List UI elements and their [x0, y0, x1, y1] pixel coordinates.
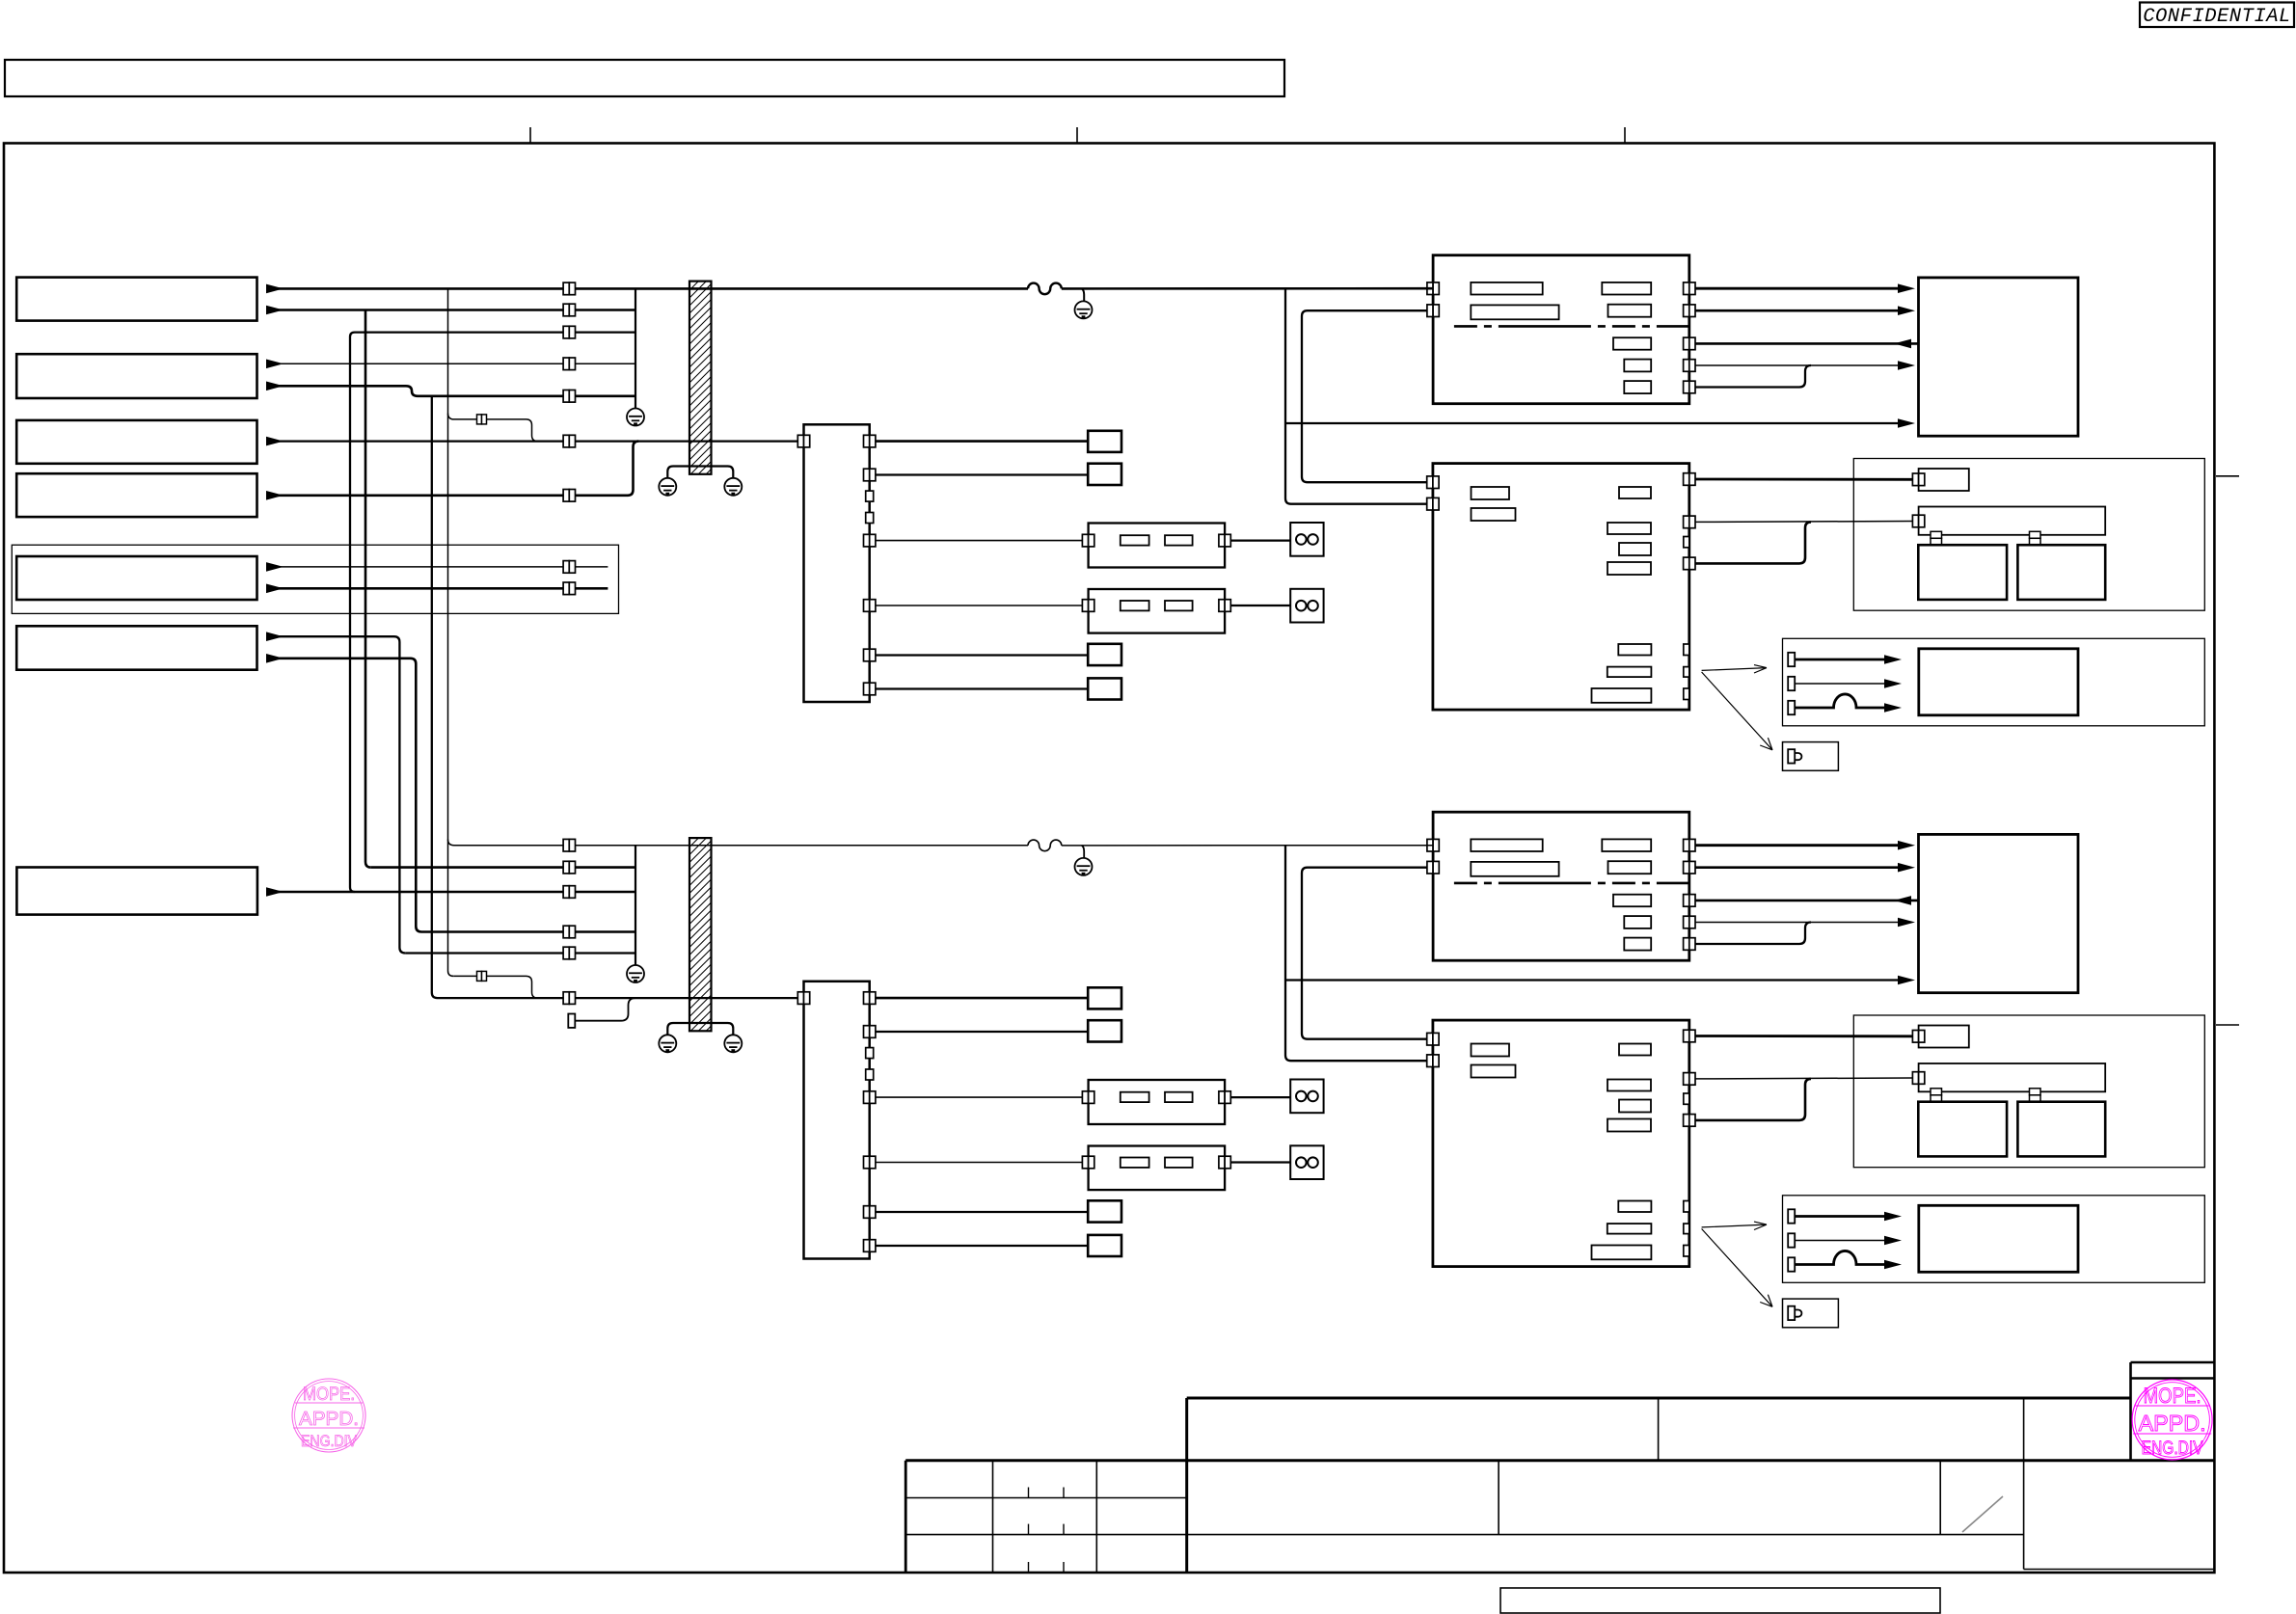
wire b3 from box7: [266, 891, 635, 894]
wire w6 to strip: [266, 440, 798, 442]
wire U2 thin to group long rect: [1695, 521, 1912, 524]
filter module 2: [1089, 589, 1226, 633]
interconnect vertical B, U1 L2 to U2 L1: [1302, 310, 1427, 482]
wire box5 b: [266, 587, 608, 590]
wire box6 b down v431: [266, 659, 421, 932]
bus vertical v448: [432, 396, 438, 998]
wire U1 to panel 3 (reverse arrow): [1695, 342, 1919, 345]
stamp box right: [2131, 1361, 2215, 1364]
bottom small box under frame: [1500, 1588, 1940, 1613]
wire b5: [405, 952, 635, 954]
long rail wire to panel: [1286, 422, 1905, 424]
bus vertical v379: [365, 310, 371, 868]
twisted-wire symbol bottom: [1028, 840, 1062, 851]
wire w5 with jog: [266, 386, 635, 396]
speaker box R: [2017, 545, 2105, 600]
ground left: [659, 478, 676, 496]
upper header row: [1187, 1397, 2131, 1400]
connectors top rows: [563, 282, 575, 295]
stub connectors: [1931, 531, 2040, 545]
wire w4 thin: [266, 363, 635, 364]
main table: [905, 1459, 2214, 1462]
input box 1: [16, 278, 257, 321]
wire U1 to panel 4 thin: [1695, 364, 1905, 366]
svg-text:CONFIDENTIAL: CONFIDENTIAL: [2143, 6, 2291, 28]
group3 wire 2 thin: [1795, 683, 1890, 685]
group3 inner box: [1919, 649, 2078, 715]
date ticks: [1029, 1488, 1065, 1574]
section divider dash-dot: [1454, 325, 1689, 328]
trunk ground: [627, 409, 644, 426]
thin shield jumper lower: [453, 976, 537, 998]
wire strip to filter1: [876, 540, 1084, 542]
connectors bottom rows: [563, 839, 575, 851]
shield drain trunk: [635, 289, 636, 409]
cable shield hatched bar: [689, 282, 712, 474]
ground hook bottom: [1082, 846, 1084, 858]
interconnect vertical A to U2 pin L2: [1285, 288, 1427, 504]
input box 3: [16, 420, 257, 464]
U ground wire under bar: [667, 467, 733, 478]
wire w1: [266, 287, 1028, 290]
frame tick marks top: [529, 127, 531, 143]
wire strip to box A1: [876, 440, 1088, 443]
wire w3 from below: [350, 333, 635, 892]
wire strip to box A3: [876, 654, 1088, 656]
ground right: [724, 478, 742, 496]
svg-text:APPD.: APPD.: [299, 1409, 359, 1430]
svg-text:MOPE.: MOPE.: [2144, 1384, 2201, 1408]
top-left long empty box: [5, 60, 1284, 96]
wire U1 to panel 1: [1695, 287, 1905, 290]
ground hook top: [1082, 288, 1084, 301]
svg-text:ENG.DIV: ENG.DIV: [301, 1432, 358, 1450]
wire strip to box A4: [876, 687, 1088, 689]
long rect with pin: [1919, 507, 2106, 535]
wire strip to filter2: [876, 605, 1084, 606]
wire U2 to group small rect: [1695, 478, 1912, 481]
wire b2: [371, 866, 635, 869]
wire b4: [421, 930, 635, 933]
ferrite bead symbol 2: [1290, 589, 1323, 623]
group3 wire 1: [1795, 659, 1890, 661]
svg-text:ENG.DIV: ENG.DIV: [2142, 1439, 2203, 1459]
terminal strip: [804, 424, 870, 702]
speaker box L: [1918, 545, 2007, 600]
strip pin L: [797, 435, 809, 447]
CONFIDENTIAL box: [2140, 3, 2294, 29]
input box 7: [16, 868, 257, 915]
filter module 1: [1089, 524, 1226, 568]
right magenta stamp: [2132, 1380, 2212, 1460]
svg-text:APPD.: APPD.: [2139, 1411, 2206, 1436]
group3 outline: [1783, 638, 2205, 726]
twisted-wire symbol top: [1028, 283, 1062, 295]
strip pins R: [864, 435, 876, 447]
input box 4: [16, 473, 257, 517]
diagonal slash cell: [1962, 1496, 2003, 1532]
test pin jumper: [575, 998, 635, 1021]
bus vertical v464: [448, 288, 454, 976]
wire U2 pin R4 jog up: [1695, 522, 1811, 563]
wire strip to box A2: [876, 473, 1088, 475]
wire U1 to panel 2: [1695, 309, 1905, 312]
input box 2: [16, 354, 257, 398]
big box U2: [1433, 464, 1689, 710]
ferrite bead symbol 1: [1290, 523, 1323, 556]
wire w2: [266, 309, 635, 311]
wire U1 pin5 jog up: [1695, 365, 1811, 388]
thin shield jumper: [448, 414, 538, 442]
input box 6: [16, 626, 257, 669]
group2 outline: [1853, 459, 2204, 611]
wire b6 to strip2: [438, 997, 798, 999]
group around box 5: [12, 545, 618, 613]
svg-text:MOPE.: MOPE.: [303, 1385, 355, 1405]
group3 wire 3 with hop: [1795, 694, 1890, 708]
wire b1 branch from v464: [448, 840, 1029, 846]
left faint magenta stamp: [292, 1379, 365, 1452]
right panel box: [1919, 278, 2079, 436]
wire w7 riser: [266, 442, 638, 496]
big box U1: [1433, 256, 1689, 404]
annotation arrows: [1702, 665, 1772, 750]
small rect with pin: [1919, 469, 1969, 491]
input box 5: [16, 556, 257, 600]
frame tick right at halves: [2216, 475, 2239, 477]
plug box: [1783, 742, 1839, 771]
wire box6 a down v414: [266, 636, 405, 953]
wire box5 a thin: [266, 566, 608, 568]
